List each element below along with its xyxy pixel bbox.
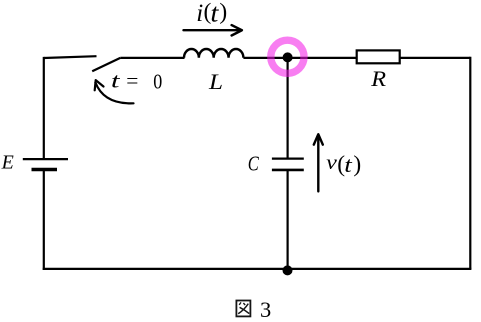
node A highlight ring (magenta) <box>271 40 304 73</box>
wire left vertical upper <box>43 57 45 159</box>
svg-text:): ) <box>219 0 227 25</box>
svg-text:3: 3 <box>260 297 271 322</box>
resistor R <box>357 50 400 63</box>
wire middle vertical lower (capacitor to bottom) <box>287 170 289 269</box>
svg-text:E: E <box>1 153 14 174</box>
svg-text:R: R <box>370 66 387 91</box>
svg-text:0: 0 <box>153 69 162 93</box>
svg-text:L: L <box>208 69 223 94</box>
capacitor C bottom plate <box>272 169 304 172</box>
svg-text:): ) <box>353 151 361 177</box>
svg-text:t: t <box>210 0 219 28</box>
svg-text:C: C <box>248 151 260 175</box>
wire middle vertical upper (node to capacitor) <box>287 56 289 159</box>
svg-text:t: t <box>111 68 121 92</box>
current arrow i(t) <box>184 25 242 35</box>
battery E long plate <box>23 158 68 160</box>
capacitor C top plate <box>272 157 304 159</box>
voltage arrow v(t) <box>314 134 323 191</box>
wire bottom <box>43 268 472 270</box>
caption 図 3 <box>236 301 250 317</box>
wire top middle (switch to inductor) <box>120 57 184 59</box>
switch SW blade <box>92 58 120 71</box>
label i(t) <box>196 0 227 28</box>
switch actuation curved arrow <box>95 80 134 103</box>
node A top junction dot <box>283 52 293 62</box>
svg-text:t: t <box>344 152 352 177</box>
battery E short plate <box>32 168 58 171</box>
wire right vertical <box>469 57 471 269</box>
wire top-left stub <box>44 56 97 58</box>
svg-text:i: i <box>196 0 203 27</box>
svg-text:v: v <box>326 152 337 174</box>
label v(t) <box>326 151 361 177</box>
node B bottom junction dot <box>283 265 293 275</box>
inductor L <box>184 49 243 58</box>
svg-text:=: = <box>126 69 138 93</box>
wire top right (inductor to node to corner) <box>243 57 470 59</box>
wire left vertical lower <box>43 170 45 271</box>
